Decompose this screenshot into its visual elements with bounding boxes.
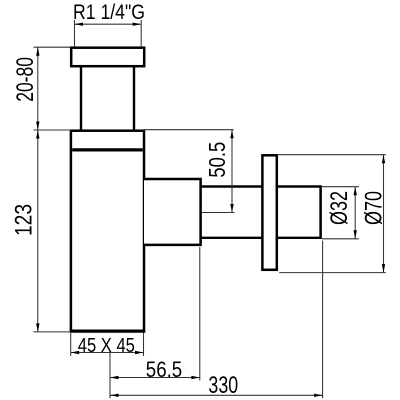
dimension 123 line bbox=[37, 130, 39, 332]
svg-text:Ø32: Ø32 bbox=[327, 191, 353, 225]
svg-text:330: 330 bbox=[208, 373, 238, 399]
dimension O32 extension bottom bbox=[322, 238, 359, 240]
node: trap body rectangle 45x45 bbox=[71, 131, 144, 331]
wire: inlet pipe left edge bbox=[80, 66, 82, 131]
dimension 330 line bbox=[110, 394, 323, 396]
wire: outlet tube end edge bbox=[319, 185, 322, 239]
dimension 50.5 centerline bbox=[202, 212, 235, 214]
dimension 20-80 / 123 extension top bbox=[34, 46, 71, 48]
dimension O32 line bbox=[354, 187, 356, 239]
dimension R1 1/4"G line bbox=[75, 23, 142, 25]
dimension 56.5 / 330 extension left bbox=[109, 353, 111, 398]
dimension O70 extension bottom bbox=[279, 272, 386, 274]
svg-text:50.5: 50.5 bbox=[205, 142, 230, 178]
dimension R1 1/4"G extension right bbox=[140, 20, 142, 46]
dimension 56.5 line bbox=[110, 377, 200, 379]
svg-text:Ø70: Ø70 bbox=[361, 191, 387, 225]
svg-text:R1 1/4"G: R1 1/4"G bbox=[73, 1, 145, 25]
svg-text:123: 123 bbox=[10, 204, 38, 236]
dimension 45x45 line bbox=[71, 352, 144, 354]
wire: outlet tube top edge bbox=[201, 185, 321, 187]
node: outlet large section bbox=[144, 179, 201, 245]
dimension 20-80 / 123 extension bottom bbox=[33, 331, 71, 333]
dimension 20-80 / 123 extension middle bbox=[34, 129, 71, 131]
dimension 50.5 extension top bbox=[144, 129, 234, 131]
dimension O70 extension top bbox=[278, 154, 386, 156]
dimension 20-80 line bbox=[37, 47, 39, 130]
dimension O70 line bbox=[383, 155, 385, 273]
wire: body bottom thick edge bbox=[70, 330, 146, 333]
dimension 56.5 extension right bbox=[199, 247, 201, 381]
svg-text:45 X 45: 45 X 45 bbox=[78, 334, 135, 357]
dimension R1 1/4"G extension left bbox=[74, 20, 76, 46]
node: top flange rectangle bbox=[71, 48, 144, 66]
dimension 50.5 line bbox=[231, 130, 233, 213]
dimension 45x45 extension left bbox=[70, 333, 72, 356]
dimension 45x45 extension right bbox=[143, 333, 145, 356]
wire: outlet tube bottom edge bbox=[201, 237, 321, 239]
svg-text:20-80: 20-80 bbox=[13, 57, 39, 102]
dimension 330 extension right bbox=[322, 241, 324, 399]
wire: inlet pipe right edge bbox=[133, 66, 135, 131]
dimension O32 extension top bbox=[322, 186, 359, 188]
node: wall flange rectangle bbox=[262, 155, 276, 269]
svg-text:56.5: 56.5 bbox=[146, 359, 182, 383]
wire: nut joint thick line bbox=[72, 148, 143, 151]
